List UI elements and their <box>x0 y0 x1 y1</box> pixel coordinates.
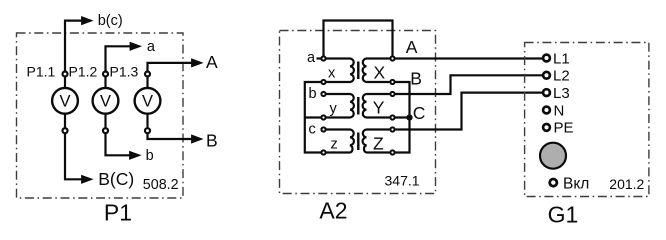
transformer T2 secondary winding B-Y <box>363 94 390 118</box>
svg-text:A: A <box>206 52 218 72</box>
terminal node P1.3 top <box>145 72 150 77</box>
primary star bus wire (x-y-z tie) <box>305 82 323 153</box>
svg-text:P1: P1 <box>104 200 132 226</box>
svg-text:P1.1: P1.1 <box>27 63 56 79</box>
svg-text:y: y <box>330 101 338 117</box>
svg-text:347.1: 347.1 <box>385 173 420 189</box>
terminal node P1.3 bottom <box>145 128 150 133</box>
svg-text:C: C <box>413 103 426 123</box>
terminal y <box>321 115 325 119</box>
svg-text:V: V <box>59 93 70 111</box>
enclosure G1 (dash-dot border) <box>525 43 649 197</box>
terminal N <box>543 107 550 114</box>
enclosure P1 (dash-dot border) <box>17 33 184 198</box>
wire from P1.2 top node to a <box>106 46 131 74</box>
voltmeter P1.3 <box>135 88 161 114</box>
terminal L3 <box>543 89 550 96</box>
terminal x <box>321 80 325 84</box>
terminal c <box>321 127 325 131</box>
stub wire terminal a <box>317 57 323 59</box>
svg-text:B: B <box>206 130 218 150</box>
junction dot at C <box>406 114 412 120</box>
svg-text:B: B <box>410 69 422 89</box>
terminal node P1.2 bottom <box>103 128 108 133</box>
svg-text:A: A <box>406 37 418 57</box>
terminal L2 <box>543 72 550 79</box>
terminal b <box>321 92 325 96</box>
svg-text:P1.3: P1.3 <box>110 63 139 79</box>
wire from P1.3 bottom node to B <box>148 131 192 139</box>
svg-text:201.2: 201.2 <box>609 176 644 192</box>
svg-text:V: V <box>142 93 153 111</box>
terminal B side <box>390 92 394 96</box>
wire voltmeter P1.3 leads <box>146 74 148 131</box>
voltmeter P1.1 <box>52 88 78 114</box>
terminal z <box>321 150 325 154</box>
svg-text:508.2: 508.2 <box>143 177 179 193</box>
wire from P1.2 bottom node to b <box>106 131 130 156</box>
svg-text:Z: Z <box>373 133 384 153</box>
terminal Y side <box>390 115 394 119</box>
svg-text:b(c): b(c) <box>98 13 123 29</box>
svg-text:L3: L3 <box>553 85 570 102</box>
transformer T2 primary winding b-y <box>326 94 354 118</box>
terminal node P1.1 bottom <box>63 128 68 133</box>
wire B row to L2 <box>393 75 544 94</box>
svg-text:b: b <box>146 148 154 164</box>
secondary star bus wire (X-Y-Z tie) <box>393 82 410 153</box>
svg-text:G1: G1 <box>548 202 579 228</box>
terminal a <box>321 56 325 60</box>
svg-text:a: a <box>147 39 156 55</box>
terminal PE <box>543 124 550 131</box>
svg-text:L2: L2 <box>553 68 570 85</box>
svg-text:x: x <box>328 66 336 82</box>
svg-text:B(C): B(C) <box>98 169 134 189</box>
svg-text:L1: L1 <box>553 50 570 67</box>
transformer T3 primary winding c-z <box>326 130 354 153</box>
svg-text:z: z <box>331 137 338 153</box>
wire voltmeter P1.2 leads <box>104 74 106 131</box>
bridge wire a to A terminal <box>324 21 393 59</box>
svg-text:PE: PE <box>554 120 574 137</box>
terminal node P1.2 top <box>103 72 108 77</box>
svg-text:A2: A2 <box>319 198 347 224</box>
enclosure A2 (dash-dot border) <box>280 31 436 194</box>
terminal C side <box>390 127 394 131</box>
svg-text:P1.2: P1.2 <box>69 63 98 79</box>
transformer T3 core <box>357 133 359 151</box>
terminal L1 <box>543 55 550 62</box>
wire from P1.1 top node to b(c) <box>65 21 82 74</box>
svg-text:V: V <box>100 93 111 111</box>
terminal node P1.1 top <box>63 72 68 77</box>
svg-text:c: c <box>309 122 316 138</box>
voltmeter P1.2 <box>93 88 119 114</box>
terminal X side <box>390 80 394 84</box>
svg-text:b: b <box>309 86 317 102</box>
wire from P1.3 top node to A <box>148 63 192 74</box>
transformer T1 core <box>357 62 359 80</box>
svg-text:Вкл: Вкл <box>563 176 589 193</box>
indicator Вкл <box>550 179 557 186</box>
terminal Z side <box>390 150 394 154</box>
wire C row to L3 <box>393 93 544 130</box>
wire voltmeter P1.1 leads <box>64 74 66 131</box>
svg-text:X: X <box>374 63 386 83</box>
svg-text:N: N <box>554 102 565 119</box>
transformer T1 primary winding a-x <box>326 59 354 83</box>
transformer T2 core <box>357 97 359 115</box>
transformer T3 secondary winding C-Z <box>363 130 390 153</box>
wire from P1.1 bottom node to B(C) <box>65 131 82 180</box>
power button <box>540 143 566 169</box>
transformer T1 secondary winding A-X <box>363 59 390 83</box>
svg-text:Y: Y <box>373 98 385 118</box>
wire A row to L1 <box>393 57 544 59</box>
terminal A side <box>390 56 394 60</box>
svg-text:a: a <box>307 50 316 66</box>
